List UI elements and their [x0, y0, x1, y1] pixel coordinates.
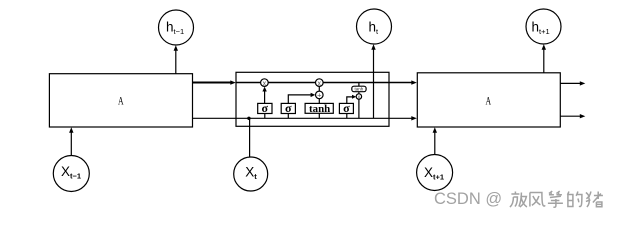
wire tanh down stub	[318, 113, 320, 118]
svg-text:tanh: tanh	[355, 87, 364, 92]
box LSTM cell	[236, 72, 389, 126]
svg-text:σ: σ	[343, 101, 350, 115]
arrowhead sigma1 into x1	[262, 87, 266, 92]
arrowhead ht+1 up	[542, 44, 546, 50]
op small tanh box	[352, 86, 366, 92]
wire ht+1 vertical	[543, 48, 545, 73]
wire C to small tanh box	[358, 83, 360, 87]
wire Xt+1 vertical	[434, 131, 436, 155]
svg-text:x: x	[318, 80, 322, 87]
wire h-line (A to junction to right A)	[193, 117, 412, 119]
svg-text:+: +	[317, 91, 322, 100]
op x1 circle	[261, 79, 269, 87]
wire right A output bottom arrow	[560, 115, 581, 117]
gate tanh box	[305, 103, 333, 113]
op x3 circle	[356, 94, 361, 99]
node Xt-1 circle	[53, 156, 89, 192]
watermark CJK 的	[567, 192, 582, 207]
wire ht-1 vertical	[175, 49, 177, 74]
svg-text:CSDN @: CSDN @	[434, 190, 502, 208]
wire right A output top arrow	[560, 82, 581, 84]
arrowhead h into right A	[411, 116, 417, 120]
wire x3 down to h-line	[358, 99, 360, 118]
arrowhead ht up	[371, 44, 375, 50]
arrowhead sigma2 into plus	[311, 93, 316, 97]
watermark CJK 猪	[586, 192, 603, 208]
node junction dot	[247, 117, 250, 120]
wire sigma3 elbow to x3	[347, 97, 353, 104]
node Xt circle	[234, 157, 268, 191]
arrowhead Xt+1 up	[433, 127, 437, 133]
svg-text:A: A	[486, 96, 492, 108]
node ht-1 circle	[159, 10, 194, 45]
box A left	[49, 74, 192, 127]
node Xt+1 circle	[417, 155, 453, 191]
arrowhead Xt-1 up	[69, 127, 73, 133]
wire sigma1 down stub	[264, 114, 266, 119]
wire tanh top stub	[318, 99, 320, 104]
op plus circle	[316, 91, 324, 99]
wire C-line inside cell to right A	[236, 82, 413, 84]
arrowhead right A out top	[580, 81, 586, 85]
box A right	[417, 73, 560, 127]
svg-text:σ: σ	[262, 101, 269, 115]
node ht circle	[357, 9, 392, 44]
svg-text:σ: σ	[285, 101, 292, 115]
wire Xt vertical	[249, 118, 251, 157]
watermark CJK 风	[530, 193, 545, 207]
wire x2-plus vertical	[318, 86, 320, 91]
svg-text:A: A	[118, 96, 124, 108]
wire sigma3 down stub	[346, 114, 348, 119]
svg-text:tanh: tanh	[309, 104, 330, 115]
gate sigma3 box	[339, 103, 353, 113]
wire C-line left segment (A to cell)	[193, 82, 232, 84]
op x2 circle	[316, 79, 324, 87]
wire sigma1 up to x1	[264, 90, 266, 104]
wire Xt-1 vertical	[70, 131, 72, 156]
wire ht vertical	[373, 48, 375, 119]
svg-text:x: x	[263, 80, 267, 87]
node ht+1 circle	[526, 9, 561, 44]
wire small tanh to x3	[358, 92, 360, 94]
arrowhead C into right A	[411, 80, 417, 84]
arrowhead ht-1 up	[174, 45, 178, 51]
wire sigma2 down stub	[287, 114, 289, 119]
gate sigma1 box	[258, 103, 272, 113]
watermark CJK 筝	[548, 191, 563, 207]
arrowhead sigma3 into x3	[352, 95, 356, 99]
arrowhead C into cell	[230, 80, 236, 84]
arrowhead right A out bottom	[580, 114, 586, 118]
gate sigma2 box	[281, 103, 295, 113]
watermark CJK 放	[510, 192, 527, 208]
svg-text:x: x	[358, 95, 361, 101]
wire sigma2 elbow to plus	[288, 95, 312, 104]
